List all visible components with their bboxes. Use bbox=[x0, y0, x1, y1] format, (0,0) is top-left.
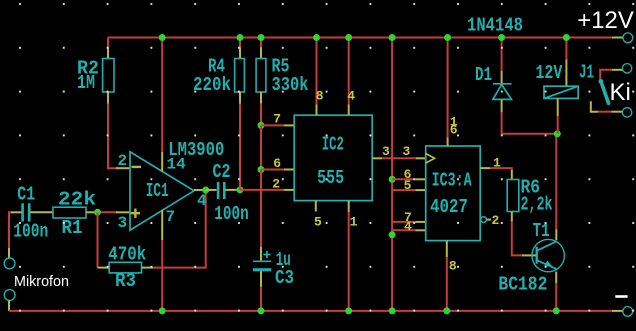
connector Mikrofon terminal 2 bbox=[4, 290, 15, 301]
node 555 pin6 junction bbox=[258, 166, 265, 173]
capacitor C1 bbox=[23, 203, 30, 221]
wire C2 right to junction bbox=[226, 189, 237, 191]
wire R1 right stub bbox=[86, 211, 98, 213]
node 555 pin8 rail junction bbox=[313, 34, 320, 41]
wire 4027 pin1 to R6 bbox=[480, 167, 490, 169]
IC2 555 bbox=[294, 115, 372, 200]
connector Mikrofon terminal 1 bbox=[4, 258, 15, 269]
node C3 ground junction bbox=[258, 307, 265, 314]
node 4027 pin8 ground junction bbox=[443, 307, 450, 314]
wire mic terminal2 to ground rail bbox=[8, 300, 10, 311]
wire +12V top rail bbox=[108, 37, 612, 39]
wire 555 pin8 power bbox=[316, 38, 318, 105]
wire IC1 pin14 power bbox=[161, 38, 163, 153]
wire R2 top riser bbox=[107, 38, 109, 48]
op-amp minus input symbol bbox=[132, 166, 142, 168]
wire D1 anode to relay/collector node bbox=[502, 112, 558, 133]
wire relay coil bottom bbox=[557, 98, 559, 116]
wire R2 bottom to IC1 pin2 bbox=[107, 92, 109, 104]
transistor T1 BC182 bbox=[532, 239, 564, 271]
node 4027 pin6/5 junction bbox=[389, 176, 396, 183]
wire long vertical rail-to-rail bbox=[391, 38, 393, 311]
node pin14 rail junction bbox=[159, 34, 166, 41]
node R5 rail junction bbox=[258, 34, 265, 41]
wire R3 right to output bbox=[142, 267, 154, 269]
node C2/R4 junction bbox=[237, 186, 244, 193]
node relay coil rail junction bbox=[563, 34, 570, 41]
node R1/R3/pin3 junction bbox=[94, 209, 101, 216]
wire 555 pin7 bbox=[261, 124, 284, 126]
capacitor C2 bbox=[218, 182, 224, 199]
diode D1 1N4148 bbox=[501, 38, 503, 71]
node pin7 ground junction bbox=[159, 307, 166, 314]
wire pin6 junction down to C3 bbox=[260, 170, 262, 247]
wire 555 pin4 power bbox=[348, 38, 350, 105]
wire 4027 pin8 ground bbox=[446, 241, 448, 258]
wire 555 pin3 to 4027 pin3 bbox=[372, 157, 382, 159]
wire 4027 pin4 bbox=[392, 229, 415, 231]
IC3:A 4027 bbox=[426, 146, 481, 241]
relay contact blade bbox=[601, 82, 609, 104]
wire 4027 pin6 bbox=[392, 178, 415, 180]
relay J1 contact common wire bbox=[612, 69, 623, 71]
wire IC1 output stub bbox=[194, 189, 206, 191]
wire T1 collector bbox=[555, 230, 557, 241]
4027 pin2 bubble bbox=[481, 217, 487, 223]
wire R1 junction to IC1 pin3 bbox=[98, 211, 119, 213]
wire R5 line pin7 to pin6 bbox=[260, 125, 262, 169]
resistor R5 bbox=[260, 38, 262, 48]
wire T1 emitter to ground bbox=[555, 272, 557, 284]
wire 4027 pin16 power bbox=[447, 38, 449, 138]
node +12V terminal bbox=[623, 33, 633, 43]
node 4027 pin7/4 junction bbox=[389, 231, 396, 238]
node bottom rail junction bbox=[389, 307, 396, 314]
capacitor C3 bbox=[260, 247, 262, 261]
node 555 pin4 rail junction bbox=[345, 34, 352, 41]
clock wedge bbox=[425, 153, 434, 163]
resistor R2 bbox=[103, 59, 114, 93]
node IC1 output junction bbox=[202, 187, 209, 194]
relay fixed contact wire bbox=[591, 101, 598, 112]
wire mic to C1 bbox=[9, 212, 12, 248]
op-amp IC1 LM3900 bbox=[130, 152, 194, 230]
node T1 emitter ground junction bbox=[553, 307, 560, 314]
wire 4027 pin2 stub dangling bbox=[487, 219, 491, 221]
resistor R4 bbox=[239, 38, 241, 48]
node contact terminal top bbox=[622, 64, 631, 73]
resistor R1 bbox=[53, 207, 86, 218]
wire 555 pin5 stub dangling bbox=[315, 201, 317, 212]
node 555 pin7 junction bbox=[258, 122, 265, 129]
wire 555 pin6 bbox=[261, 169, 284, 171]
relay J1 coil bbox=[565, 38, 567, 60]
node ground terminal bbox=[623, 307, 633, 317]
node top rail junction bbox=[389, 34, 396, 41]
node contact terminal bottom bbox=[622, 108, 631, 117]
wire C1 to R1 bbox=[30, 211, 53, 213]
wire R3 left riser bbox=[97, 212, 99, 267]
ground minus label bbox=[615, 295, 627, 298]
wire R6 bottom to T1 base bbox=[511, 212, 513, 222]
wire 555 pin1 ground bbox=[348, 201, 350, 212]
wire ground bottom rail bbox=[9, 310, 612, 312]
node R4 rail junction bbox=[237, 34, 244, 41]
resistor R3 bbox=[109, 262, 141, 273]
wire 4027 pin7 bbox=[392, 221, 415, 223]
node 4027 pin16 rail junction bbox=[444, 34, 451, 41]
wire IC1 pin7 ground bbox=[161, 210, 163, 240]
wire output to C2 bbox=[206, 189, 217, 191]
op-amp plus input symbol bbox=[131, 209, 140, 218]
wire 4027 pin5 bbox=[392, 189, 415, 191]
node D1/relay/collector junction bbox=[554, 130, 561, 137]
wire junction to 555 pin2 bbox=[240, 189, 284, 191]
node D1 rail junction bbox=[498, 34, 505, 41]
resistor R6 bbox=[507, 180, 519, 212]
node 555 pin1 ground junction bbox=[345, 307, 352, 314]
wire top rail terminal stub bbox=[612, 37, 623, 39]
